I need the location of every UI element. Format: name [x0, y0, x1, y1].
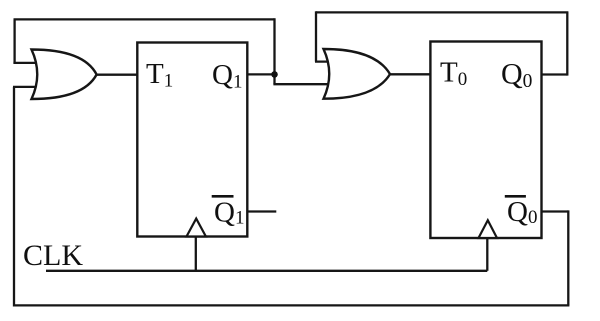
wire net Q1: OR1 upper input stub	[13, 62, 40, 64]
wire net Q1: left feedback vertical	[13, 19, 15, 63]
or-gate G1	[32, 50, 97, 100]
flip-flop U2 box	[430, 42, 541, 239]
wire net Q0bar: OR1 lower input stub	[13, 86, 40, 88]
wire net Q0: OR2 upper input nub	[315, 60, 334, 62]
label Q1bar pin	[212, 196, 245, 228]
junction dot node Q1	[271, 71, 278, 78]
or-gate G2	[324, 49, 391, 99]
wire net Q0: top horizontal	[316, 11, 568, 13]
wire Q1bar output stub	[248, 210, 277, 212]
wire CLK to U2 clock pin	[486, 238, 488, 271]
wire net Q1: Q1 output to junction	[248, 73, 275, 75]
wire net Q1: junction to OR2 lower input	[273, 83, 336, 85]
wire net Q1: top horizontal	[14, 18, 275, 20]
wire net Q0bar: right vertical down	[567, 210, 569, 305]
svg-text:CLK: CLK	[23, 239, 83, 272]
wire OR2 output to T0 input	[388, 73, 433, 75]
wire net Q1: feedback vertical to junction	[273, 18, 275, 84]
wire CLK main line	[46, 270, 487, 272]
wire OR1 output to T1 input	[95, 74, 140, 76]
clock triangle U2	[479, 220, 498, 238]
label Q0bar pin	[505, 196, 538, 228]
wire net Q0: down to OR2 upper input	[315, 11, 317, 61]
wire CLK to U1 clock pin	[195, 237, 197, 271]
wire net Q0bar: left vertical up	[13, 87, 15, 307]
wire net Q0bar: bottom rail	[14, 304, 569, 306]
wire net Q0bar: Q0bar output	[542, 210, 569, 212]
flip-flop U1 box	[137, 43, 247, 237]
clock triangle U1	[187, 219, 206, 237]
wire net Q0: Q0 output	[542, 73, 568, 75]
wire net Q0: right vertical up	[566, 12, 568, 75]
